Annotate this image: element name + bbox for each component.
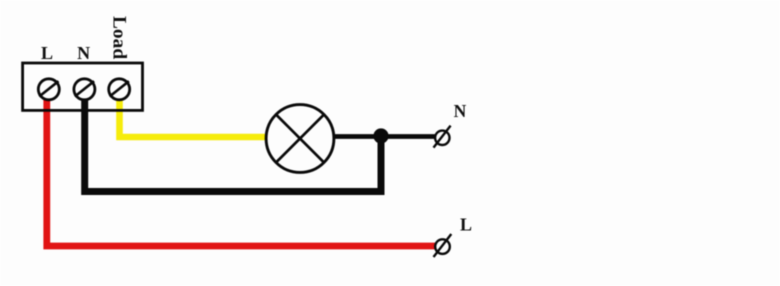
svg-text:L: L	[460, 215, 472, 235]
svg-text:N: N	[77, 43, 90, 63]
svg-text:Load: Load	[108, 16, 129, 59]
svg-text:L: L	[41, 43, 53, 63]
svg-text:N: N	[454, 101, 467, 121]
